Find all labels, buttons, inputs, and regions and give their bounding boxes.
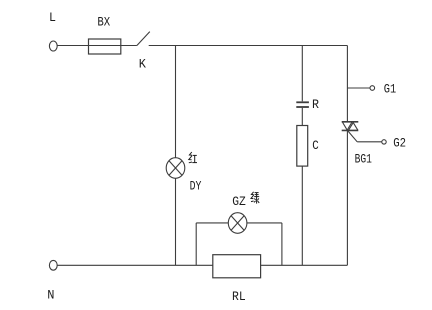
label 绿	[251, 192, 259, 204]
node N terminal	[49, 260, 57, 270]
wire bottom left	[57, 264, 213, 266]
wire switch to top-right corner	[149, 45, 348, 47]
wire fuse to switch	[121, 45, 137, 47]
svg-text:R: R	[312, 97, 319, 112]
fuse BX	[89, 39, 121, 54]
wire RC branch top	[301, 46, 303, 102]
node G1 terminal	[370, 86, 375, 91]
switch K blade	[137, 32, 150, 46]
svg-text:G2: G2	[393, 137, 406, 151]
svg-text:BG1: BG1	[355, 152, 372, 166]
svg-text:DY: DY	[190, 180, 202, 194]
wire G1 tap	[347, 87, 370, 89]
wire GZ branch right horizontal	[247, 222, 282, 224]
wire GZ branch left horizontal	[196, 222, 228, 224]
svg-text:C: C	[312, 138, 319, 153]
triac BG1	[342, 122, 359, 131]
wire bottom right	[261, 264, 348, 266]
label 红	[189, 152, 197, 163]
wire right vertical upper	[346, 46, 348, 122]
resistor RL	[213, 255, 261, 278]
wire GZ branch left vertical	[195, 223, 197, 265]
svg-text:BX: BX	[97, 15, 110, 29]
wire right vertical lower	[346, 130, 348, 265]
wire R to C	[301, 108, 303, 126]
svg-text:L: L	[49, 11, 56, 25]
wire C to bottom	[301, 166, 303, 265]
lamp DY	[166, 158, 185, 179]
lamp GZ	[228, 213, 247, 234]
wire GZ branch right vertical	[281, 223, 283, 265]
svg-text:G1: G1	[384, 83, 396, 97]
wire main left vertical lower	[175, 178, 177, 265]
wire triac gate	[347, 130, 381, 141]
resistor R (plate symbol)	[296, 102, 309, 107]
node G2 terminal	[382, 140, 386, 144]
capacitor C (box)	[297, 126, 308, 167]
node L terminal	[49, 41, 57, 51]
wire main left vertical upper	[175, 46, 177, 158]
wire L to fuse	[57, 45, 88, 47]
svg-text:GZ: GZ	[232, 195, 246, 209]
svg-text:K: K	[139, 58, 147, 72]
svg-text:N: N	[47, 288, 54, 302]
svg-text:RL: RL	[232, 289, 246, 304]
